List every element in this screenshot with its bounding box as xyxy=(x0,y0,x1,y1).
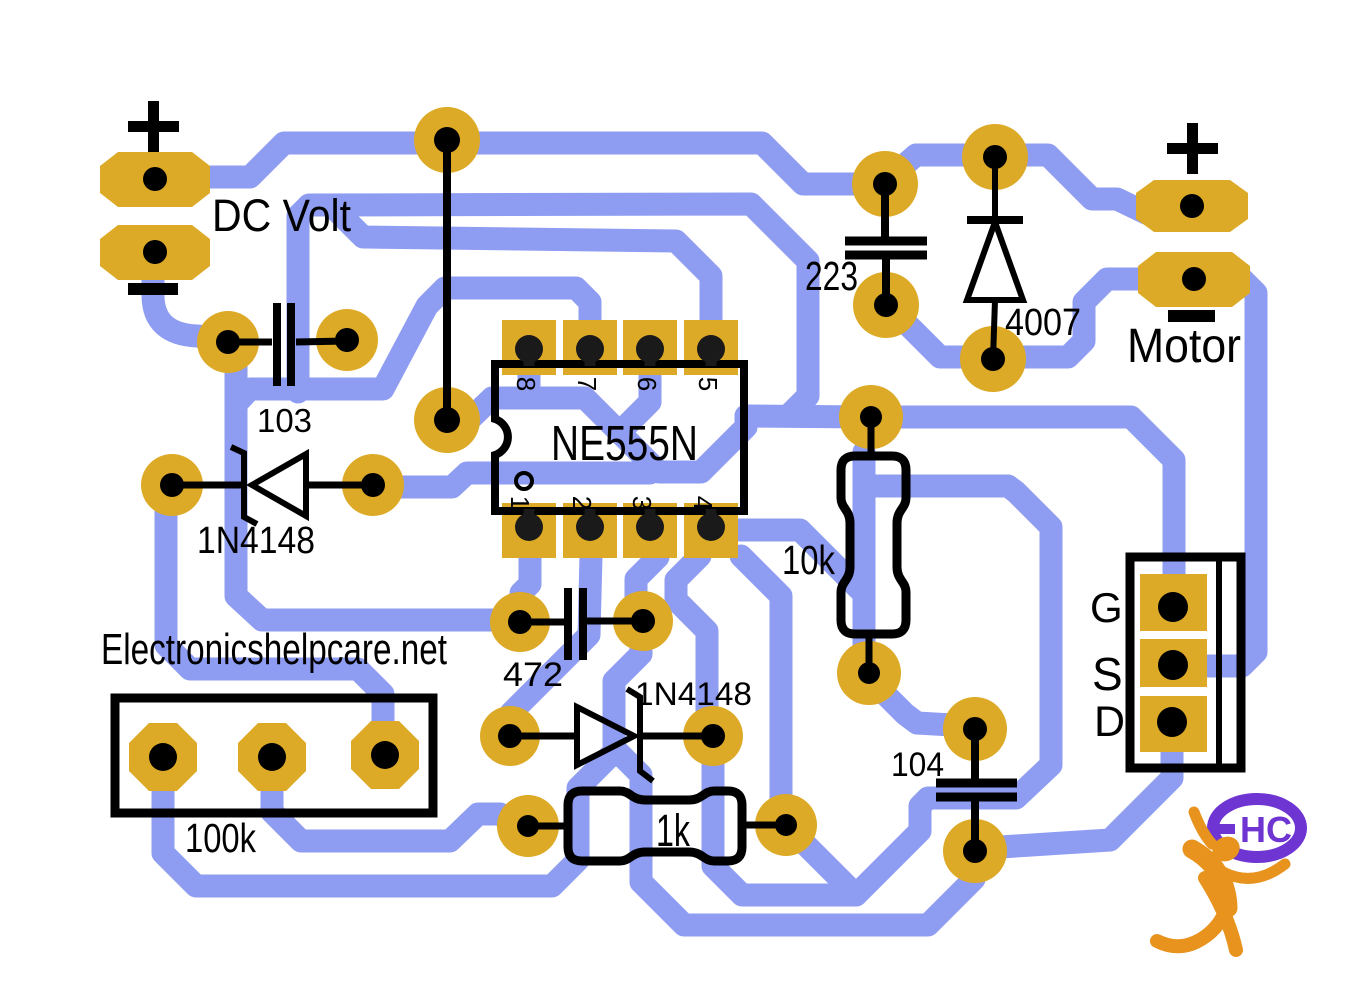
svg-text:104: 104 xyxy=(891,746,944,784)
wire pot pad2 to 1k-left xyxy=(272,760,525,841)
pin numbers xyxy=(505,377,723,510)
hole pot 3 xyxy=(371,741,399,769)
hole pot 2 xyxy=(258,743,286,771)
plus sign Motor xyxy=(1167,123,1218,174)
hole G xyxy=(1158,592,1188,622)
pad DC- xyxy=(100,225,210,280)
wire horizontal into 10k-top xyxy=(746,416,871,417)
wire C103-left stub down xyxy=(229,349,236,480)
diode D2 1N4148 xyxy=(510,689,713,781)
capacitor C103 xyxy=(228,303,347,386)
capacitor C223 xyxy=(845,184,927,305)
wire net-B: vertical behind C103 bars, across top, down right of IC xyxy=(298,204,808,415)
wire pin4 S-jog to D2-right xyxy=(676,556,707,734)
pad C103 right xyxy=(316,309,378,371)
wire pin6 stub xyxy=(628,352,650,424)
jumper wire W1 xyxy=(443,140,451,420)
pad C472 right xyxy=(613,591,673,651)
svg-text:D: D xyxy=(1094,698,1125,746)
wire net-B branch to pin5 xyxy=(333,207,711,332)
svg-text:HC: HC xyxy=(1240,809,1292,850)
logo figure orange xyxy=(1157,812,1285,950)
pad D4007 bottom xyxy=(960,326,1026,392)
hole C104 bottom xyxy=(963,839,987,863)
hole Motor+ xyxy=(1180,194,1204,218)
svg-text:10k: 10k xyxy=(782,537,835,583)
pad C223 bottom xyxy=(853,272,919,338)
svg-text:6: 6 xyxy=(632,377,662,391)
wire behind 10k body vertical xyxy=(853,452,876,672)
hole C104 top xyxy=(963,717,987,741)
wire 1k-right stub to lower rail xyxy=(790,829,856,895)
plus sign DC xyxy=(128,101,179,152)
hole pot 1 xyxy=(149,743,177,771)
diode D1 1N4148 xyxy=(172,447,373,524)
pad IC pin6 xyxy=(623,320,677,375)
pad IC pin7 xyxy=(563,320,617,375)
wire pin2 to D2-left xyxy=(511,556,591,736)
logo E bar xyxy=(1212,824,1235,834)
IC pin stubs xyxy=(529,347,711,528)
pad pot 3 xyxy=(351,721,419,789)
hole D4007 bottom xyxy=(981,347,1005,371)
pad R10k top xyxy=(839,385,903,449)
pad R10k bottom xyxy=(837,641,901,705)
svg-text:DC Volt: DC Volt xyxy=(212,190,351,241)
hole jumper top xyxy=(434,127,460,153)
svg-text:223: 223 xyxy=(805,253,858,299)
pin1 marker O xyxy=(516,473,532,489)
wire D2-right down, right rail up behind 104 to y490 xyxy=(713,486,1051,895)
pad D4007 top xyxy=(962,124,1028,190)
wire 10k-top to G pad xyxy=(871,417,1174,600)
svg-text:5: 5 xyxy=(693,377,723,391)
IC NE555N body xyxy=(495,364,744,511)
resistor R1k body xyxy=(568,791,742,861)
svg-text:8: 8 xyxy=(511,377,541,391)
wire pin1 to 472-left xyxy=(521,556,530,620)
hole D2 left xyxy=(498,724,522,748)
svg-text:G: G xyxy=(1090,584,1123,631)
pad C223 top xyxy=(852,151,918,217)
wire 472-left to long diagonal to pin7 xyxy=(236,288,590,620)
hole C103 right xyxy=(335,328,359,352)
pad IC pin5 xyxy=(684,320,738,375)
wire DC- to C103-left xyxy=(153,266,226,339)
wire C223-top to D4007-top to Motor+ xyxy=(885,155,1146,213)
pad C472 left xyxy=(490,592,550,652)
wire D1-left down to pot pad3 xyxy=(166,495,383,755)
hole C223 top xyxy=(873,172,897,196)
R1k leads xyxy=(528,825,786,826)
capacitor C104 xyxy=(936,729,1017,851)
pad Motor- xyxy=(1138,252,1250,307)
hole D2 right xyxy=(701,724,725,748)
wire pin4 down to 1k-right xyxy=(741,556,781,800)
hole R10k top xyxy=(860,406,882,428)
pad R1k left xyxy=(497,795,559,857)
svg-text:100k: 100k xyxy=(185,815,256,861)
hole Motor- xyxy=(1182,267,1206,291)
pad R1k right xyxy=(755,794,817,856)
wire 10k-bottom to 104-top xyxy=(871,680,952,725)
svg-text:1N4148: 1N4148 xyxy=(635,676,752,712)
pad D2 left xyxy=(480,706,540,766)
connector inner line xyxy=(1216,561,1222,764)
pad D1 left xyxy=(141,454,203,516)
pad G xyxy=(1140,574,1207,631)
pad IC pin2 xyxy=(563,503,617,558)
wire branch to lower rail and 104-bottom xyxy=(614,748,974,925)
pad D xyxy=(1140,696,1207,752)
wire D pad down-left to 104-bottom xyxy=(985,728,1172,848)
hole R1k right xyxy=(775,814,797,836)
pad jumper top xyxy=(414,107,480,173)
pad IC pin8 xyxy=(502,320,556,375)
hole D1 right xyxy=(361,473,385,497)
logo head xyxy=(1208,832,1244,866)
svg-text:Electronicshelpcare.net: Electronicshelpcare.net xyxy=(101,625,447,674)
hole DC- xyxy=(143,240,167,264)
pad D2 right xyxy=(683,706,743,766)
svg-text:4: 4 xyxy=(688,496,718,510)
wire D1-right into IC interior xyxy=(374,473,650,487)
hole DC+ xyxy=(143,167,167,191)
hole C472 left xyxy=(508,610,532,634)
diode D4007 xyxy=(967,157,1023,359)
connector GSD outline xyxy=(1130,557,1241,768)
wire pin8 stub xyxy=(518,352,541,396)
hole C103 left xyxy=(216,330,240,354)
hole S xyxy=(1158,650,1188,680)
pad pot 1 xyxy=(129,723,197,791)
wire 472-right down under 1k to pot pad1 xyxy=(163,632,641,886)
potentiometer 100k outline xyxy=(115,698,433,813)
wire Motor- to D4007-bottom to C223-bottom xyxy=(888,279,1140,357)
svg-text:1k: 1k xyxy=(656,805,690,856)
pad pot 2 xyxy=(238,723,306,791)
svg-text:S: S xyxy=(1092,648,1123,700)
svg-text:3: 3 xyxy=(627,496,657,510)
pad IC pin3 xyxy=(623,503,677,558)
pad IC pin1 xyxy=(502,503,556,558)
hole C472 right xyxy=(631,609,655,633)
pad C104 bottom xyxy=(943,819,1007,883)
pad D1 right xyxy=(342,454,404,516)
wire Motor- right side down to S pad xyxy=(1206,279,1256,666)
hole R10k bottom xyxy=(858,662,880,684)
wire jumper-bottom through IC interior to x808 vertical xyxy=(447,398,746,472)
svg-text:103: 103 xyxy=(257,402,312,439)
hole jumper bottom xyxy=(434,407,460,433)
wire pin4 right to 10k-bottom xyxy=(739,530,864,672)
capacitor C472 xyxy=(520,588,643,660)
svg-text:472: 472 xyxy=(503,656,563,694)
pad C103 left xyxy=(197,311,259,373)
wire pin3 to 472-right xyxy=(636,557,658,607)
svg-text:NE555N: NE555N xyxy=(551,417,698,471)
hole R1k left xyxy=(517,815,539,837)
hole D xyxy=(1157,707,1187,737)
svg-text:1: 1 xyxy=(505,496,535,510)
hole C223 bottom xyxy=(874,293,898,317)
pad C104 top xyxy=(943,697,1007,761)
logo ellipse ring xyxy=(1213,799,1301,857)
pad S xyxy=(1140,639,1207,687)
pad jumper bottom xyxy=(414,387,480,453)
IC pin circles xyxy=(515,335,725,541)
pad Motor+ xyxy=(1136,180,1248,232)
pad DC+ xyxy=(100,152,210,207)
minus sign DC xyxy=(128,283,178,295)
pad IC pin4 xyxy=(684,503,738,558)
hole D4007 top xyxy=(983,145,1007,169)
minus sign Motor xyxy=(1168,310,1215,322)
resistor R10k body xyxy=(841,456,906,634)
svg-text:1N4148: 1N4148 xyxy=(197,520,315,562)
hole D1 left xyxy=(160,473,184,497)
wire VCC top rail: DC+ to jumper-top to C223-top xyxy=(211,143,868,184)
svg-text:7: 7 xyxy=(572,377,602,391)
R10k leads xyxy=(869,417,871,673)
svg-text:Motor: Motor xyxy=(1127,320,1241,373)
svg-text:4007: 4007 xyxy=(1005,302,1081,344)
svg-text:2: 2 xyxy=(567,496,597,510)
